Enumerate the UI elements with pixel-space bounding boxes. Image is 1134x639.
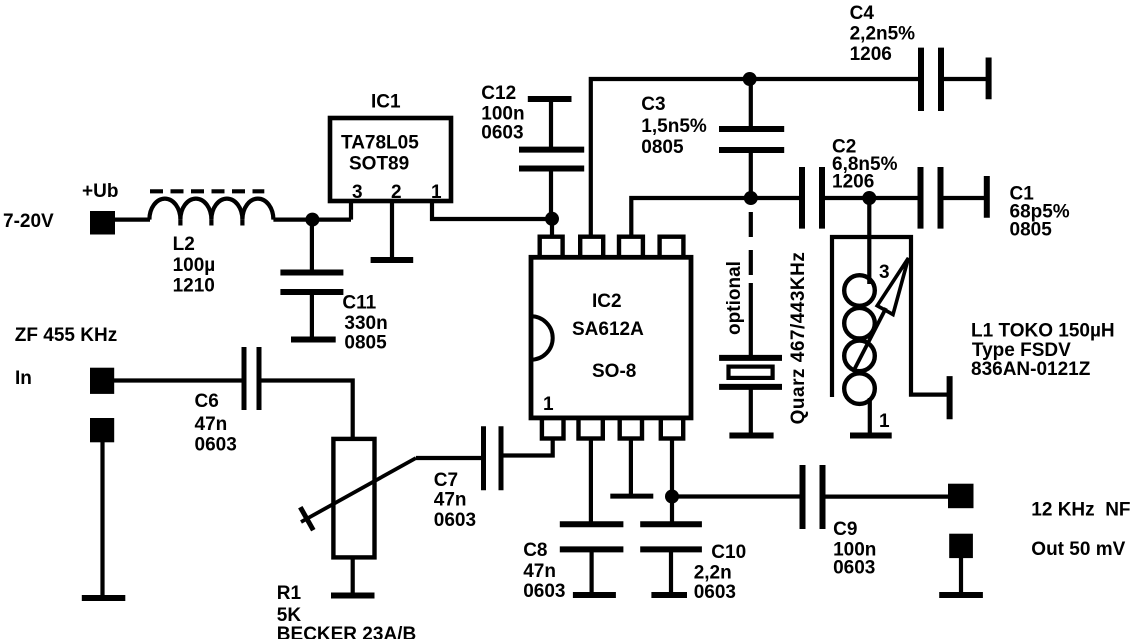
- svg-text:0603: 0603: [195, 435, 237, 456]
- svg-text:C8: C8: [523, 540, 547, 561]
- svg-text:1: 1: [879, 411, 890, 432]
- svg-text:0805: 0805: [1010, 220, 1053, 241]
- svg-text:0603: 0603: [523, 581, 565, 602]
- svg-text:optional: optional: [724, 261, 745, 335]
- svg-text:Type FSDV: Type FSDV: [972, 340, 1071, 361]
- svg-text:IC1: IC1: [371, 92, 401, 113]
- svg-text:0603: 0603: [694, 582, 736, 603]
- svg-text:C7: C7: [434, 470, 458, 491]
- svg-text:C4: C4: [850, 3, 875, 24]
- svg-text:3: 3: [352, 182, 363, 203]
- svg-text:0805: 0805: [344, 333, 387, 354]
- svg-text:Out 50 mV: Out 50 mV: [1031, 539, 1125, 560]
- svg-text:1: 1: [431, 182, 442, 203]
- svg-text:1206: 1206: [850, 44, 892, 65]
- svg-text:TA78L05: TA78L05: [341, 133, 419, 154]
- svg-text:C3: C3: [641, 94, 665, 115]
- svg-text:0805: 0805: [641, 137, 684, 158]
- svg-text:+Ub: +Ub: [82, 181, 118, 202]
- svg-text:1210: 1210: [173, 276, 215, 297]
- svg-text:0603: 0603: [481, 123, 523, 144]
- svg-text:12 KHz NF: 12 KHz NF: [1031, 500, 1130, 521]
- svg-text:0603: 0603: [434, 510, 476, 531]
- svg-text:2,2n5%: 2,2n5%: [850, 24, 916, 45]
- svg-text:47n: 47n: [523, 561, 556, 582]
- svg-text:C9: C9: [833, 519, 857, 540]
- svg-text:47n: 47n: [195, 414, 228, 435]
- svg-text:R1: R1: [277, 583, 302, 604]
- svg-text:L1 TOKO 150µH: L1 TOKO 150µH: [971, 321, 1115, 342]
- svg-text:7-20V: 7-20V: [3, 211, 54, 232]
- svg-text:SA612A: SA612A: [572, 319, 644, 340]
- svg-text:L2: L2: [173, 234, 195, 255]
- svg-text:Quarz 467/443KHz: Quarz 467/443KHz: [788, 252, 809, 425]
- svg-text:BECKER 23A/B: BECKER 23A/B: [277, 624, 416, 639]
- svg-text:SO-8: SO-8: [592, 361, 636, 382]
- svg-text:47n: 47n: [434, 490, 467, 511]
- svg-text:836AN-0121Z: 836AN-0121Z: [971, 359, 1091, 380]
- svg-text:SOT89: SOT89: [349, 154, 409, 175]
- svg-text:C6: C6: [195, 391, 219, 412]
- svg-text:ZF 455 KHz: ZF 455 KHz: [15, 325, 117, 346]
- svg-text:330n: 330n: [344, 313, 387, 334]
- svg-text:C11: C11: [342, 293, 376, 314]
- svg-text:C12: C12: [481, 83, 516, 104]
- svg-text:C10: C10: [711, 542, 746, 563]
- svg-text:1,5n5%: 1,5n5%: [641, 116, 707, 137]
- svg-text:5K: 5K: [277, 605, 302, 626]
- svg-text:100n: 100n: [481, 104, 524, 125]
- svg-text:2: 2: [391, 182, 402, 203]
- svg-text:1: 1: [543, 394, 554, 415]
- svg-text:3: 3: [879, 262, 890, 283]
- svg-text:2,2n: 2,2n: [694, 563, 732, 584]
- svg-text:0603: 0603: [833, 558, 875, 579]
- svg-text:IC2: IC2: [592, 291, 622, 312]
- svg-text:In: In: [15, 368, 32, 389]
- svg-text:100µ: 100µ: [173, 255, 216, 276]
- svg-text:1206: 1206: [832, 172, 874, 193]
